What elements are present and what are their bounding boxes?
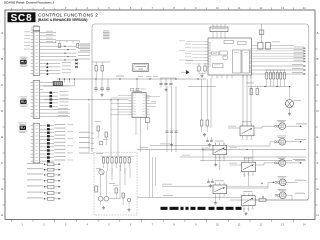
svg-text:F: F	[1, 161, 3, 165]
svg-text:C: C	[316, 83, 318, 87]
svg-text:E: E	[317, 135, 319, 139]
svg-text:A: A	[317, 31, 319, 35]
svg-text:F: F	[317, 161, 319, 165]
svg-text:SC8: SC8	[10, 13, 32, 24]
svg-text:D: D	[1, 109, 3, 113]
svg-text:SCAVIO Panel: Control Function: SCAVIO Panel: Control Functions 2	[4, 1, 55, 5]
svg-text:H: H	[316, 213, 318, 217]
svg-text:C: C	[1, 83, 3, 87]
svg-text:A: A	[1, 31, 3, 35]
svg-text:CONTROL FUNCTIONS 2: CONTROL FUNCTIONS 2	[38, 13, 98, 18]
svg-text:(BASIC & ENHANCED VERSION): (BASIC & ENHANCED VERSION)	[38, 18, 87, 22]
svg-text:B: B	[1, 57, 3, 61]
svg-text:E: E	[1, 135, 3, 139]
svg-text:B: B	[317, 57, 319, 61]
svg-text:D: D	[316, 109, 318, 113]
svg-text:H: H	[1, 213, 3, 217]
